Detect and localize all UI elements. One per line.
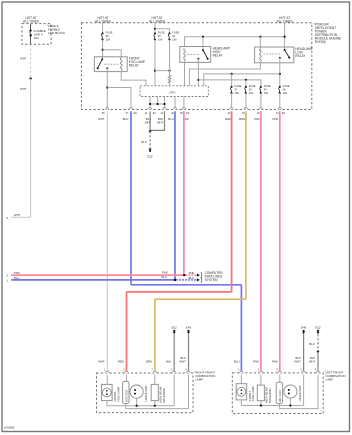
wire pin3 to HID [126,375,128,382]
IPDM connector pin 12 [145,108,157,116]
headlamp high relay [180,47,211,63]
svg-text:BRN: BRN [239,117,245,121]
lamp connector pin 3 [123,368,128,373]
wire fuse 36 to pin 94 [279,93,281,109]
node fuse 37 feed [231,73,233,75]
node fog output [106,86,108,88]
node headlamp left ground [289,404,291,406]
IPDM connector pin 40 [171,108,177,116]
wire fog lamp ground [106,401,108,406]
svg-text:RELAY: RELAY [295,54,306,58]
wire CPU to pin 41 [164,97,166,110]
svg-text:PNK: PNK [254,117,260,121]
wire BLU down to left front lamp [240,285,242,373]
node ground tie left [149,103,151,105]
IPDM connector pin 90 [257,108,263,116]
svg-text:HEADLAMP: HEADLAMP [144,386,148,402]
wire HID ground [126,375,189,409]
svg-text:WHT: WHT [98,360,105,364]
IPDM E/R box [81,23,311,110]
wire BRN pin 60 vertical [245,111,247,299]
high beam solenoid right [151,384,158,400]
lamp2 ground bus [241,405,303,407]
svg-text:JKA0B25: JKA0B25 [4,427,15,430]
svg-text:WHT: WHT [14,213,21,217]
svg-text:WHT: WHT [157,121,164,125]
front fog lamp right [102,384,113,400]
front fog lamp left label [248,386,255,401]
wire RED pin 62 vertical [231,111,233,292]
wire high switch output [197,59,199,86]
fuse and fusible link block box [22,24,51,45]
arrow PNK to data system [197,274,200,277]
left front combination lamp label [324,370,345,381]
wire fuse 30 to pin 60 [245,93,247,109]
lamp2 connector pin 3 [300,368,305,373]
svg-text:RELAY: RELAY [129,64,140,68]
wire WHT vertical [30,79,32,218]
svg-text:WHT: WHT [309,360,316,364]
wire BLU data line dashed [176,279,196,281]
svg-text:WHT: WHT [20,57,27,61]
svg-text:BLU: BLU [168,117,174,121]
node ground tie right [163,103,165,105]
high beam solenoid label [159,386,166,403]
high beam solenoid left label [265,386,272,403]
svg-text:FOG LAMP: FOG LAMP [251,386,255,401]
HID control left [276,382,282,403]
IPDM connector pin 60 [242,108,248,116]
svg-text:FUSE: FUSE [234,84,241,88]
wire fog output to pin 67 [107,88,131,110]
svg-text:WHT: WHT [20,87,27,91]
wire WHT dashed from fusible link block [30,44,32,78]
svg-text:PNK: PNK [253,360,259,364]
wire high coil to CPU [184,61,186,86]
svg-text:LAMP: LAMP [195,377,203,381]
svg-text:BLU: BLU [14,276,20,280]
wire BLU pin 67 vertical [130,111,132,284]
svg-text:RED: RED [118,360,124,364]
svg-text:HEADLAMP: HEADLAMP [298,385,302,401]
wire fuse 34 to pin 90 [260,93,262,109]
fuse 58 [101,32,103,40]
wire fog coil feed [103,50,122,58]
wire fog relay output [106,68,108,109]
lamp connector pin 7 [152,368,157,373]
wire HID left ground [279,375,318,409]
wire to high switch [202,37,204,50]
node low output [279,73,281,75]
fusible link K label [34,29,46,40]
svg-text:15A: 15A [106,37,111,41]
svg-text:FUSE: FUSE [283,84,290,88]
svg-text:FUSE: FUSE [158,31,165,35]
fuse 30 [245,86,247,94]
node ground tie mid [157,103,159,105]
ground E46 right front lamp [186,325,192,334]
node BLU data junction [174,279,176,281]
node tie low right [168,70,170,72]
wire PNK pin 39 to data line [183,111,185,275]
svg-text:SOLENOID: SOLENOID [162,388,166,403]
svg-text:SYSTEM: SYSTEM [205,278,218,282]
node low coil feed [259,36,261,38]
fuse 30 label [249,84,256,95]
wire tie fuses outputs [155,70,170,72]
node high output [197,79,199,81]
wire hot2 to fuse 58 [102,23,104,34]
fusible link K [29,24,32,45]
svg-text:BLK: BLK [309,342,314,346]
svg-text:E22: E22 [172,325,178,329]
wire WHT pin 86 to right front lamp [106,111,108,373]
wire pin7 to solenoid [154,375,156,385]
node fog feed [102,49,104,51]
svg-text:15A: 15A [283,91,288,95]
svg-text:WHT: WHT [179,360,186,364]
lamp ground bus [107,405,174,407]
wire solenoid left ground [260,401,262,406]
arrow BLU to data system [197,278,200,281]
wire PNK pin 90 to left front lamp [260,111,262,373]
svg-text:PNK: PNK [14,271,20,275]
fuse 58 label [106,31,113,42]
ground E46 left front lamp [301,325,307,334]
IPDM connector pin 41 [161,108,167,116]
svg-text:E22: E22 [148,155,154,159]
wire high output to fuses [198,80,261,87]
IPDM connector pin 62 [228,108,234,116]
wire headlamp left ground [289,398,291,405]
svg-text:WHT: WHT [98,117,105,121]
wire low switch output [279,58,281,87]
left front combination lamp box [232,373,323,414]
fuse 34 [260,86,262,94]
wire label BLK/WHT [309,356,316,364]
lamp2 connector pin 1 [238,368,243,373]
wire pin5 to HID left [279,375,281,383]
lamp connector pin 1 [104,368,109,373]
svg-text:15A: 15A [234,91,239,95]
right front combination lamp box [97,373,194,413]
hot at all times label 2 [95,16,111,23]
headlamp left [284,385,297,398]
svg-text:RED: RED [225,117,231,121]
wire fuse 51 to resistor [169,40,171,76]
svg-text:BRN: BRN [146,360,152,364]
svg-text:E22: E22 [315,325,321,329]
fuse 50 [154,32,156,40]
IPDM E/R label [313,23,341,44]
wire fog coil to CPU [121,72,146,86]
node solenoid ground [154,405,156,407]
wire BLK/WHT pin 41 to ground [150,111,164,130]
ground E22 IPDM [148,149,154,159]
wire BLK/WHT left lamp pin 4 [317,352,319,373]
IPDM connector pin 67 [126,108,138,116]
svg-text:RELAY: RELAY [213,54,224,58]
wire resistor to CPU [169,84,171,86]
fuse 50 label [158,31,165,42]
node fuse 30 feed [245,79,247,81]
wire relay supply bus [185,37,285,47]
wire BLU data line [11,279,175,281]
wire label BLK/WHT pin 12 [145,117,152,124]
svg-text:E46: E46 [301,325,307,329]
wire PNK data line [11,274,184,276]
hot at all times label 4 [277,16,293,23]
node splice left lamp ground [317,350,319,352]
wire CPU to pin 40 [174,97,176,110]
wire tie to fuse 51 [155,29,170,34]
splice node [29,77,31,79]
wire RED horizontal [127,291,232,293]
computer data lines system label [205,271,224,282]
fuse 34 label [264,84,271,95]
svg-text:HID CONT: HID CONT [278,389,282,402]
wire fuse 30 feed [245,80,247,87]
node ground splice [149,130,151,132]
svg-text:PNK: PNK [272,360,278,364]
node solenoid left ground [260,404,262,406]
svg-text:FUSE: FUSE [264,84,271,88]
wire BRN down to right front lamp [154,299,156,373]
lamp connector pin 3b [171,368,176,373]
wire label BLK/WHT [294,356,301,364]
wire BLK/WHT pin 12 to ground [149,111,151,131]
svg-text:BLK: BLK [166,360,171,364]
wire BLU pin 40 to data line [174,111,176,280]
wire fuse 37 feed [231,74,233,87]
wire fuse 58 to fog relay [102,40,104,60]
HID control right [123,381,129,403]
headlamp low relay label [295,47,312,58]
fuse 36 label [283,84,290,95]
wire fog lamp left ground [240,400,242,406]
fuse 37 [230,86,232,94]
svg-text:PNK: PNK [272,117,278,121]
wire RED down to right front lamp [126,292,128,373]
svg-text:BLU: BLU [123,117,129,121]
front fog lamp label [113,386,120,401]
wire fuse 37 to pin 62 [231,93,233,109]
node tie low [154,70,156,72]
lamp2 connector pin 5 [277,368,282,373]
right front combination lamp label [194,370,215,381]
lamp2 connector pin 4 [315,368,320,373]
headlamp right [130,385,143,398]
svg-text:BLK: BLK [141,140,146,144]
fuse and fusible link block label [47,24,65,35]
svg-text:LAMP: LAMP [325,377,333,381]
ground E22 left front lamp [315,325,321,334]
node fuse tie top [154,28,156,30]
svg-text:LINK BLOCK: LINK BLOCK [48,31,65,35]
fuse 36 [279,86,281,94]
lamp connector pin 4 [185,368,190,373]
wire to low coil [259,37,261,51]
svg-text:ALL TIMES: ALL TIMES [23,19,39,23]
wire WHT horizontal to off-page [11,216,30,218]
svg-text:FOG LAMP: FOG LAMP [117,386,121,401]
wire headlamp ground [136,398,138,406]
svg-text:PNK: PNK [162,270,168,274]
ground E22 right front lamp [172,325,178,334]
front fog lamp relay [94,57,127,72]
wire hot3 feed [154,23,156,34]
resistor [168,75,170,83]
wire low output to CPU [204,74,280,86]
hot at all times label 3 [149,16,165,23]
wire label BLK/WHT [179,356,186,364]
svg-text:15A: 15A [249,91,254,95]
wire BLK/WHT left lamp pin 3 [303,334,305,373]
svg-text:FUSE: FUSE [172,31,179,35]
IPDM connector pin 94 [276,108,286,116]
front fog lamp left [236,384,247,400]
IPDM connector pin 39 [180,108,190,116]
wire pin1 to fog lamp [106,375,108,385]
wire BLK right front lamp [173,334,175,373]
svg-text:15A: 15A [172,37,177,41]
svg-text:FUSE: FUSE [106,31,113,35]
wire CPU to pin 12 [149,97,151,110]
wire BRN horizontal [155,298,246,300]
svg-text:E46: E46 [186,325,192,329]
wire pin1 to fog lamp left [240,375,242,384]
wire solenoid ground [154,401,156,406]
svg-text:15A: 15A [158,37,163,41]
fuse 51 [168,32,170,40]
headlamp low relay [255,47,294,63]
wire fuse 50 to CPU [154,40,156,86]
node low switch feed [284,36,286,38]
svg-text:40A: 40A [34,36,39,40]
front fog lamp relay label [129,56,145,67]
wire BLU horizontal to left front lamp [131,284,241,286]
wire pin7 to solenoid left [260,375,262,385]
IPDM connector pin 86 [102,108,109,115]
svg-text:15A: 15A [264,91,269,95]
lamp2 connector pin 7 [258,368,263,373]
svg-text:ROOM): ROOM) [315,40,326,44]
wire CPU to pin 39 [183,97,185,110]
wire pin3 down left lamp [303,375,305,406]
wire BLK/WHT right front lamp [188,334,190,373]
svg-text:WHT: WHT [294,360,301,364]
wire label BLK/WHT pin 41 [157,117,164,124]
svg-text:ALL TIMES: ALL TIMES [149,19,165,23]
computer data lines system brace [201,272,202,278]
svg-text:PNK: PNK [189,271,195,275]
node headlamp ground [136,405,138,407]
hot at all times label 1 [23,16,39,23]
fuse 51 label [172,31,179,42]
svg-text:HID CONT: HID CONT [124,389,128,402]
wire PNK data line dashed [186,274,197,276]
wire CPU ground stub [157,97,159,105]
svg-text:CPU: CPU [169,90,175,94]
fuse 37 label [234,84,241,95]
wire pin3b down [173,375,175,406]
svg-text:BLU: BLU [162,275,168,279]
svg-text:BLU: BLU [234,360,240,364]
CPU box [140,86,208,97]
node high switch feed [202,36,204,38]
node PNK data junction [183,274,185,276]
wire PNK pin 94 to left front lamp [279,111,281,373]
wire hot4 feed [284,23,286,50]
svg-text:BLU: BLU [189,276,195,280]
wire ground tie [150,103,164,105]
svg-text:SOLENOID: SOLENOID [268,388,272,403]
high beam solenoid left [257,385,264,401]
wire BLK dashed left lamp [317,334,319,351]
svg-text:FUSE: FUSE [249,84,256,88]
headlamp high relay label [213,46,230,57]
wire low coil to CPU [189,61,260,86]
wire BLK dashed to ground [149,131,151,148]
